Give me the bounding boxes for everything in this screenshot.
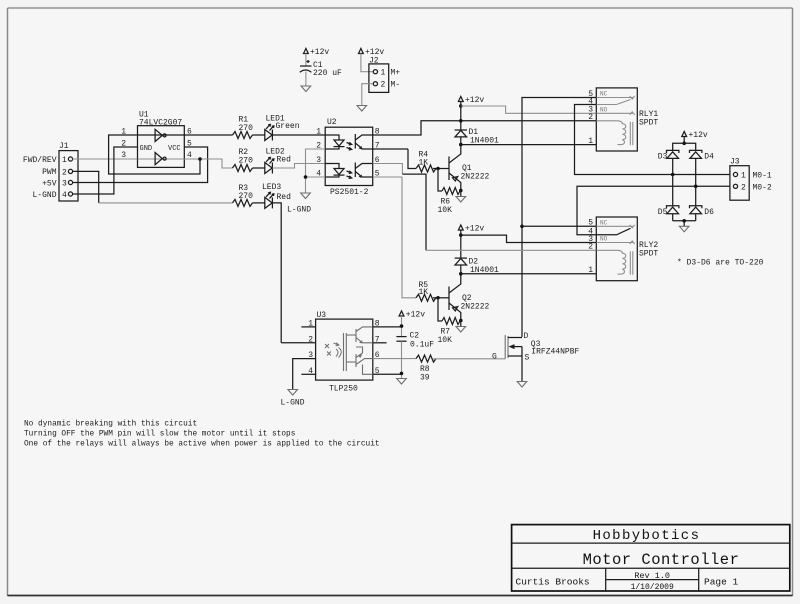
wire PWM horizontal to R3 bbox=[99, 202, 233, 204]
node junction R5 base bbox=[436, 296, 440, 300]
svg-text:VCC: VCC bbox=[168, 145, 181, 153]
svg-text:GND: GND bbox=[140, 145, 153, 153]
wire Q3 source to ground bbox=[521, 356, 523, 382]
wire J1.4 L-GND to U1.2 bbox=[73, 147, 138, 194]
svg-text:+12v: +12v bbox=[465, 225, 484, 234]
node junction D2 anode bbox=[459, 272, 463, 276]
node junction coil row bbox=[459, 119, 463, 123]
svg-text:Rev 1.0: Rev 1.0 bbox=[634, 571, 670, 581]
LED2 Red bbox=[265, 147, 291, 173]
wire R1 to LED1 bbox=[253, 134, 265, 136]
svg-text:S: S bbox=[525, 354, 530, 363]
wire U3.4 stub bbox=[301, 373, 315, 375]
node junction U2.4 bbox=[304, 175, 308, 179]
wire U2.7 to R4 bbox=[373, 148, 408, 150]
svg-text:M0-1: M0-1 bbox=[753, 172, 772, 181]
svg-text:1: 1 bbox=[316, 128, 321, 137]
wire U2.6 to RLY2.2 coil bbox=[373, 164, 403, 175]
wire +12v to J2.1 bbox=[361, 54, 373, 72]
ground under C1 bbox=[301, 86, 311, 92]
svg-text:0.1uF: 0.1uF bbox=[410, 341, 434, 350]
svg-text:+12v: +12v bbox=[406, 311, 425, 320]
power +12v for J2 bbox=[359, 48, 385, 57]
wire D5 D6 anodes join bbox=[673, 220, 696, 222]
svg-text:+5V: +5V bbox=[42, 179, 57, 188]
svg-text:1: 1 bbox=[741, 172, 746, 181]
ground L-GND under U2 bbox=[287, 193, 311, 215]
ground under Q1 bbox=[456, 191, 466, 203]
title block bbox=[512, 525, 790, 592]
svg-text:D: D bbox=[524, 332, 529, 341]
svg-text:10K: 10K bbox=[438, 336, 453, 345]
svg-text:+12v: +12v bbox=[310, 48, 329, 57]
ground under Q3 bbox=[517, 382, 527, 388]
svg-text:1/10/2009: 1/10/2009 bbox=[631, 583, 674, 592]
power +12v for D1 bbox=[458, 96, 484, 130]
wire NC bus RLY1.5 bbox=[522, 98, 596, 337]
connector J3 bbox=[730, 158, 749, 201]
svg-text:PWM: PWM bbox=[42, 168, 57, 177]
svg-text:3: 3 bbox=[316, 156, 321, 165]
wire J1.3 +5V to U1.5 bbox=[73, 147, 208, 183]
wire +12v to D3 D4 cathodes bbox=[673, 143, 696, 150]
svg-text:3: 3 bbox=[62, 180, 67, 189]
capacitor C2 0.1uF bbox=[396, 332, 434, 379]
wire RLY2.2 row bbox=[426, 249, 596, 251]
power +12v for C1 bbox=[304, 48, 330, 66]
transistor Q1 2N2222 bbox=[449, 153, 490, 191]
svg-text:1: 1 bbox=[62, 156, 67, 165]
wire J2.2 to ground bbox=[362, 84, 373, 106]
wire LED3 to U3.2 bbox=[272, 203, 281, 343]
svg-text:Page 1: Page 1 bbox=[704, 577, 739, 588]
svg-text:No dynamic breaking with this: No dynamic breaking with this circuit bbox=[24, 421, 197, 429]
svg-text:SPDT: SPDT bbox=[639, 119, 658, 128]
svg-text:2N2222: 2N2222 bbox=[461, 303, 490, 312]
svg-text:Hobbybotics: Hobbybotics bbox=[593, 528, 701, 544]
svg-text:D3: D3 bbox=[658, 152, 668, 161]
note text block bbox=[24, 421, 380, 449]
node junction U3.8 vcc bbox=[400, 324, 404, 328]
diode D4 bbox=[690, 150, 715, 186]
capacitor C1 220uF bbox=[300, 60, 342, 86]
svg-text:M0-2: M0-2 bbox=[753, 183, 772, 192]
svg-text:5: 5 bbox=[187, 140, 192, 149]
svg-text:IRFZ44NPBF: IRFZ44NPBF bbox=[531, 348, 579, 357]
svg-text:G: G bbox=[492, 352, 497, 361]
svg-text:2: 2 bbox=[121, 140, 126, 149]
svg-text:L-GND: L-GND bbox=[32, 191, 56, 200]
resistor R4 1K bbox=[408, 149, 449, 172]
node junction +12v D1 bbox=[459, 104, 463, 108]
wire U3.3 to ground bbox=[293, 359, 316, 390]
power +12v for U3 bbox=[399, 311, 425, 337]
resistor R3 bbox=[233, 184, 254, 206]
transistor Q2 2N2222 bbox=[449, 283, 490, 321]
optocoupler U3 TLP250 bbox=[316, 311, 373, 394]
diode D6 bbox=[690, 186, 715, 221]
svg-text:NO: NO bbox=[600, 106, 608, 113]
svg-text:3: 3 bbox=[121, 151, 126, 160]
wire RLY1.4 common to J3.1 M0-1 bbox=[575, 105, 730, 175]
svg-text:* D3-D6 are TO-220: * D3-D6 are TO-220 bbox=[677, 259, 764, 268]
resistor R5 1K bbox=[402, 177, 449, 301]
wire RLY2.5 NC row bbox=[522, 225, 596, 227]
svg-text:39: 39 bbox=[420, 374, 430, 383]
wire U2.2 U2.4 to ground bbox=[306, 149, 326, 193]
ground under C2 bbox=[397, 379, 407, 385]
U2 internal opto 1 bbox=[325, 134, 373, 150]
node junction D5 D6 bbox=[682, 219, 686, 223]
svg-text:D4: D4 bbox=[704, 152, 714, 161]
wire LED1 to U2.1 bbox=[272, 134, 325, 136]
svg-text:4: 4 bbox=[62, 191, 67, 200]
svg-text:2N2222: 2N2222 bbox=[461, 173, 490, 182]
svg-text:2: 2 bbox=[588, 243, 593, 252]
svg-text:Red: Red bbox=[277, 193, 292, 202]
svg-text:TLP250: TLP250 bbox=[329, 385, 358, 394]
wire U3.1 stub bbox=[301, 326, 315, 328]
wire J1.1 to U1.3 bbox=[73, 158, 138, 160]
svg-text:2: 2 bbox=[62, 168, 67, 177]
svg-text:U3: U3 bbox=[317, 311, 327, 320]
svg-text:J3: J3 bbox=[730, 158, 740, 167]
svg-text:1: 1 bbox=[588, 137, 593, 146]
svg-text:Green: Green bbox=[276, 122, 300, 131]
ground under Q2 bbox=[456, 321, 466, 333]
power +12v for D3 D4 bbox=[682, 131, 708, 143]
svg-text:1: 1 bbox=[588, 266, 593, 275]
resistor R2 bbox=[233, 148, 254, 172]
ground under J2 bbox=[357, 106, 367, 112]
optocoupler U2 PS2501-2 bbox=[325, 118, 373, 197]
node junction +12v split bbox=[682, 142, 686, 146]
svg-text:SPDT: SPDT bbox=[639, 250, 658, 259]
svg-text:5: 5 bbox=[588, 219, 593, 228]
transistor Q3 IRFZ44NPBF mosfet bbox=[492, 332, 580, 363]
wire +12v dogleg to RLY1.3 bbox=[461, 106, 597, 113]
node junction U1.4 loop bbox=[198, 157, 202, 161]
svg-text:Curtis Brooks: Curtis Brooks bbox=[516, 577, 590, 588]
ground under D5 D6 bbox=[679, 221, 689, 232]
svg-text:1: 1 bbox=[121, 128, 126, 137]
svg-text:NC: NC bbox=[600, 219, 608, 226]
svg-text:L-GND: L-GND bbox=[281, 399, 305, 408]
LED3 Red bbox=[262, 183, 291, 208]
svg-text:L-GND: L-GND bbox=[287, 206, 311, 215]
U2 internal opto 2 bbox=[325, 163, 373, 179]
svg-text:220 uF: 220 uF bbox=[313, 69, 342, 78]
resistor R7 10K bbox=[438, 298, 461, 345]
diode D5 bbox=[658, 175, 679, 221]
relay RLY1 SPDT bbox=[596, 88, 658, 151]
ground L-GND under U3 bbox=[281, 390, 305, 408]
svg-text:M+: M+ bbox=[391, 69, 401, 78]
svg-text:U2: U2 bbox=[327, 118, 337, 127]
wire U1.6 to R1 bbox=[184, 134, 232, 136]
wire U1.4 to R2 bbox=[184, 159, 232, 168]
svg-text:10K: 10K bbox=[438, 206, 453, 215]
LED1 Green bbox=[265, 114, 300, 140]
node junction +12v D2 bbox=[459, 233, 463, 237]
U3 internals bbox=[325, 327, 373, 374]
svg-text:FWD/REV: FWD/REV bbox=[23, 156, 57, 165]
wire D2 anode to RLY2.1 bbox=[461, 273, 597, 275]
op-amp U1 74LVC2G07 bbox=[138, 111, 185, 168]
resistor R1 bbox=[233, 116, 254, 139]
svg-text:+12v: +12v bbox=[689, 131, 708, 140]
svg-text:1: 1 bbox=[381, 69, 386, 78]
diode D2 1N4001 bbox=[455, 258, 499, 283]
svg-text:2: 2 bbox=[741, 183, 746, 192]
node junction D3 M0-1 bbox=[671, 173, 675, 177]
svg-text:J2: J2 bbox=[369, 57, 379, 66]
resistor R6 10K bbox=[438, 169, 461, 216]
wire R3 to LED3 bbox=[253, 202, 265, 204]
relay RLY2 SPDT bbox=[596, 217, 658, 281]
svg-text:74LVC2G07: 74LVC2G07 bbox=[139, 119, 182, 128]
wire U2.8 to RLY1.2 coil row bbox=[373, 121, 597, 135]
wire U3.6 to R8 bbox=[373, 358, 416, 360]
wire U1.1 feedback loop to U1.4 node bbox=[109, 135, 200, 174]
node junction D4 M0-2 bbox=[694, 185, 698, 189]
node junction U3.5 gnd bbox=[400, 372, 404, 376]
power +12v for D2 bbox=[458, 225, 484, 259]
wire U2.4 stub bbox=[306, 176, 326, 178]
diode D1 1N4001 bbox=[455, 128, 499, 153]
svg-text:NC: NC bbox=[600, 91, 608, 98]
svg-text:Motor Controller: Motor Controller bbox=[583, 551, 740, 569]
svg-text:Turning OFF the PWM pin will s: Turning OFF the PWM pin will slow the mo… bbox=[24, 431, 296, 439]
node junction bus RLY2.5 bbox=[520, 225, 524, 229]
svg-text:Red: Red bbox=[277, 155, 292, 164]
svg-text:D6: D6 bbox=[704, 208, 714, 217]
svg-text:D5: D5 bbox=[658, 208, 668, 217]
node junction D1 anode bbox=[459, 143, 463, 147]
wire R2 to LED2 bbox=[253, 167, 265, 169]
node junction Q1 emitter bbox=[459, 189, 463, 193]
wire U2.6 jog down bbox=[402, 174, 426, 250]
svg-text:2: 2 bbox=[588, 113, 593, 122]
svg-text:2: 2 bbox=[381, 81, 386, 90]
resistor R8 39 bbox=[416, 355, 436, 382]
wire U3.2 from LED3 bbox=[281, 342, 315, 344]
svg-text:PS2501-2: PS2501-2 bbox=[330, 188, 369, 197]
wire R8 to Q3 gate bbox=[433, 358, 505, 360]
wire U3.7 stub bbox=[373, 342, 387, 344]
wire RLY2.4 common to J3.2 M0-2 bbox=[577, 186, 730, 235]
svg-text:C2: C2 bbox=[410, 332, 420, 341]
node junction Q2 emitter bbox=[459, 319, 463, 323]
svg-text:J1: J1 bbox=[59, 142, 69, 151]
wire J1.2 PWM to R3 row bbox=[73, 171, 99, 203]
node junction R4 base bbox=[436, 167, 440, 171]
diode D3 bbox=[658, 150, 679, 174]
svg-text:+12v: +12v bbox=[465, 96, 484, 105]
wire LED2 to U2.3 bbox=[272, 164, 325, 169]
svg-text:LED3: LED3 bbox=[262, 183, 281, 192]
wire U2.5 to R5 bbox=[373, 176, 402, 178]
connector J1 bbox=[59, 142, 78, 201]
wire U3.8 to vcc column bbox=[373, 326, 402, 328]
wire U3.5 to gnd column bbox=[373, 373, 402, 375]
wire +12v dogleg to RLY2.3 bbox=[461, 235, 597, 242]
wire D1 anode to RLY1.1 bbox=[461, 144, 597, 146]
svg-text:M-: M- bbox=[391, 81, 401, 90]
svg-text:One of the relays will always: One of the relays will always be active … bbox=[24, 441, 380, 449]
connector J2 bbox=[369, 57, 389, 93]
svg-text:NO: NO bbox=[600, 236, 608, 243]
